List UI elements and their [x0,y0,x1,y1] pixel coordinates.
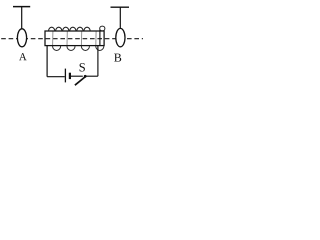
coil last turn ring at right end [100,26,105,31]
label B [114,54,121,62]
battery short plate (-) [69,73,71,79]
compass needle B (ellipse) [116,28,125,46]
wire battery to switch [71,75,83,77]
label S [80,63,85,71]
coil top arcs [48,27,90,31]
support stand right (thread) [119,7,121,28]
support stand right (bar) [111,6,130,8]
battery long plate (+) [64,69,66,83]
support stand left (thread) [21,7,23,30]
coil bottom arcs [53,46,104,51]
coil last turn front stroke [99,30,101,46]
compass needle A (ellipse) [17,29,26,47]
switch pivot dot [84,75,87,78]
support stand left (bar) [13,6,30,8]
wire bottom left segment [47,76,65,78]
dashed axis line [1,38,143,40]
solenoid core rectangle [45,31,104,46]
wire left vertical [46,46,48,77]
label A [19,53,27,60]
coil front strokes (gray) [53,31,97,45]
wire switch to right corner [86,75,98,77]
wire right vertical [97,46,99,77]
switch blade (open) [75,77,86,86]
